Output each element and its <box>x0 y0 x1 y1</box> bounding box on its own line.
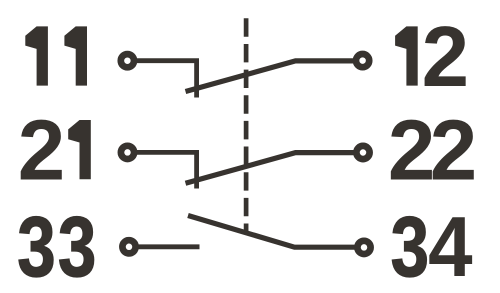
terminal 33 <box>122 240 135 253</box>
terminal 11 <box>121 54 134 67</box>
wire 21 fixed lead <box>134 152 197 188</box>
label 11 digit 1a <box>25 26 48 85</box>
contact blade K3 (make) <box>188 216 355 248</box>
terminal 22 <box>356 146 369 159</box>
mechanical link (dashed line) <box>244 18 249 231</box>
terminal 12 <box>356 54 369 67</box>
label 11 digit 1b <box>64 26 87 85</box>
terminal 21 <box>121 146 134 159</box>
wire 33 fixed lead <box>136 244 200 249</box>
label 21 digit 1 <box>68 120 91 179</box>
wire 11 fixed lead <box>134 61 197 98</box>
svg-text:3: 3 <box>58 200 96 293</box>
svg-text:2: 2 <box>422 10 469 105</box>
svg-text:3: 3 <box>391 200 429 293</box>
svg-text:3: 3 <box>17 200 55 293</box>
contact blade K2 (break) <box>186 153 354 184</box>
label 12 digit 1 <box>395 26 418 85</box>
svg-text:4: 4 <box>428 199 472 293</box>
svg-text:2: 2 <box>388 103 435 198</box>
svg-text:2: 2 <box>430 103 477 198</box>
terminal 34 <box>357 241 370 254</box>
svg-text:2: 2 <box>18 103 65 198</box>
contact blade K1 (break) <box>186 61 354 92</box>
